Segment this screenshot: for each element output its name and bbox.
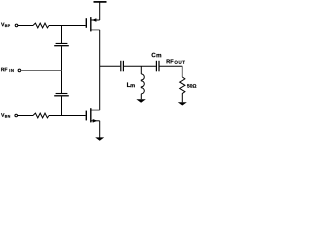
resistor (VBP bias) [33,23,49,28]
ground (50 ohm load) [178,102,187,105]
terminal RFIN [18,69,21,72]
wire [61,97,63,116]
resistor 50 ohm load [180,77,185,102]
power rail VDD [94,2,107,20]
wire [181,66,183,77]
wire (drain node vertical) [99,30,101,110]
net label RFOUT [167,59,185,63]
wire [21,70,62,72]
net label VBP [1,23,10,27]
wire [18,115,34,117]
resistor (VBN bias) [33,113,49,118]
ground (inductor) [136,99,145,103]
capacitor C2 (input coupling, NMOS gate) [54,94,69,96]
capacitor (output series) [121,61,124,72]
capacitor CM (output series) [156,61,159,72]
terminal VBP [15,24,18,27]
wire [124,65,156,67]
wire [160,65,183,67]
wire (output node) [100,65,121,67]
inductor LM (shunt to ground) [141,66,144,99]
terminal VBN [15,114,18,117]
wire [49,115,86,117]
transistor M2 (NMOS) [86,108,99,122]
wire [61,46,63,93]
capacitor C1 (input coupling, PMOS gate) [54,43,69,45]
value label Cm [152,53,162,58]
wire [18,25,33,27]
value label 50 ohm [187,84,196,88]
node (VBP wire / coupling cap tap) [61,26,63,44]
wire [49,25,86,27]
net label RFIN [1,68,14,72]
wire (NMOS source) [99,121,101,138]
net label VBN [1,113,10,117]
value label Lm [127,82,135,87]
transistor M1 (PMOS) [86,17,99,31]
ground (NMOS source) [95,137,104,140]
